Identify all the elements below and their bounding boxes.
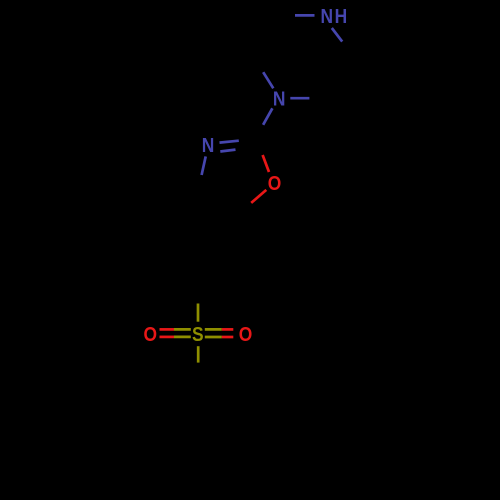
svg-text:N: N xyxy=(273,87,286,109)
svg-text:H: H xyxy=(335,5,348,27)
svg-text:O: O xyxy=(268,172,282,194)
svg-text:N: N xyxy=(321,5,334,27)
svg-text:S: S xyxy=(192,323,204,345)
svg-text:O: O xyxy=(144,323,158,345)
svg-text:O: O xyxy=(239,323,253,345)
svg-text:N: N xyxy=(202,134,215,156)
